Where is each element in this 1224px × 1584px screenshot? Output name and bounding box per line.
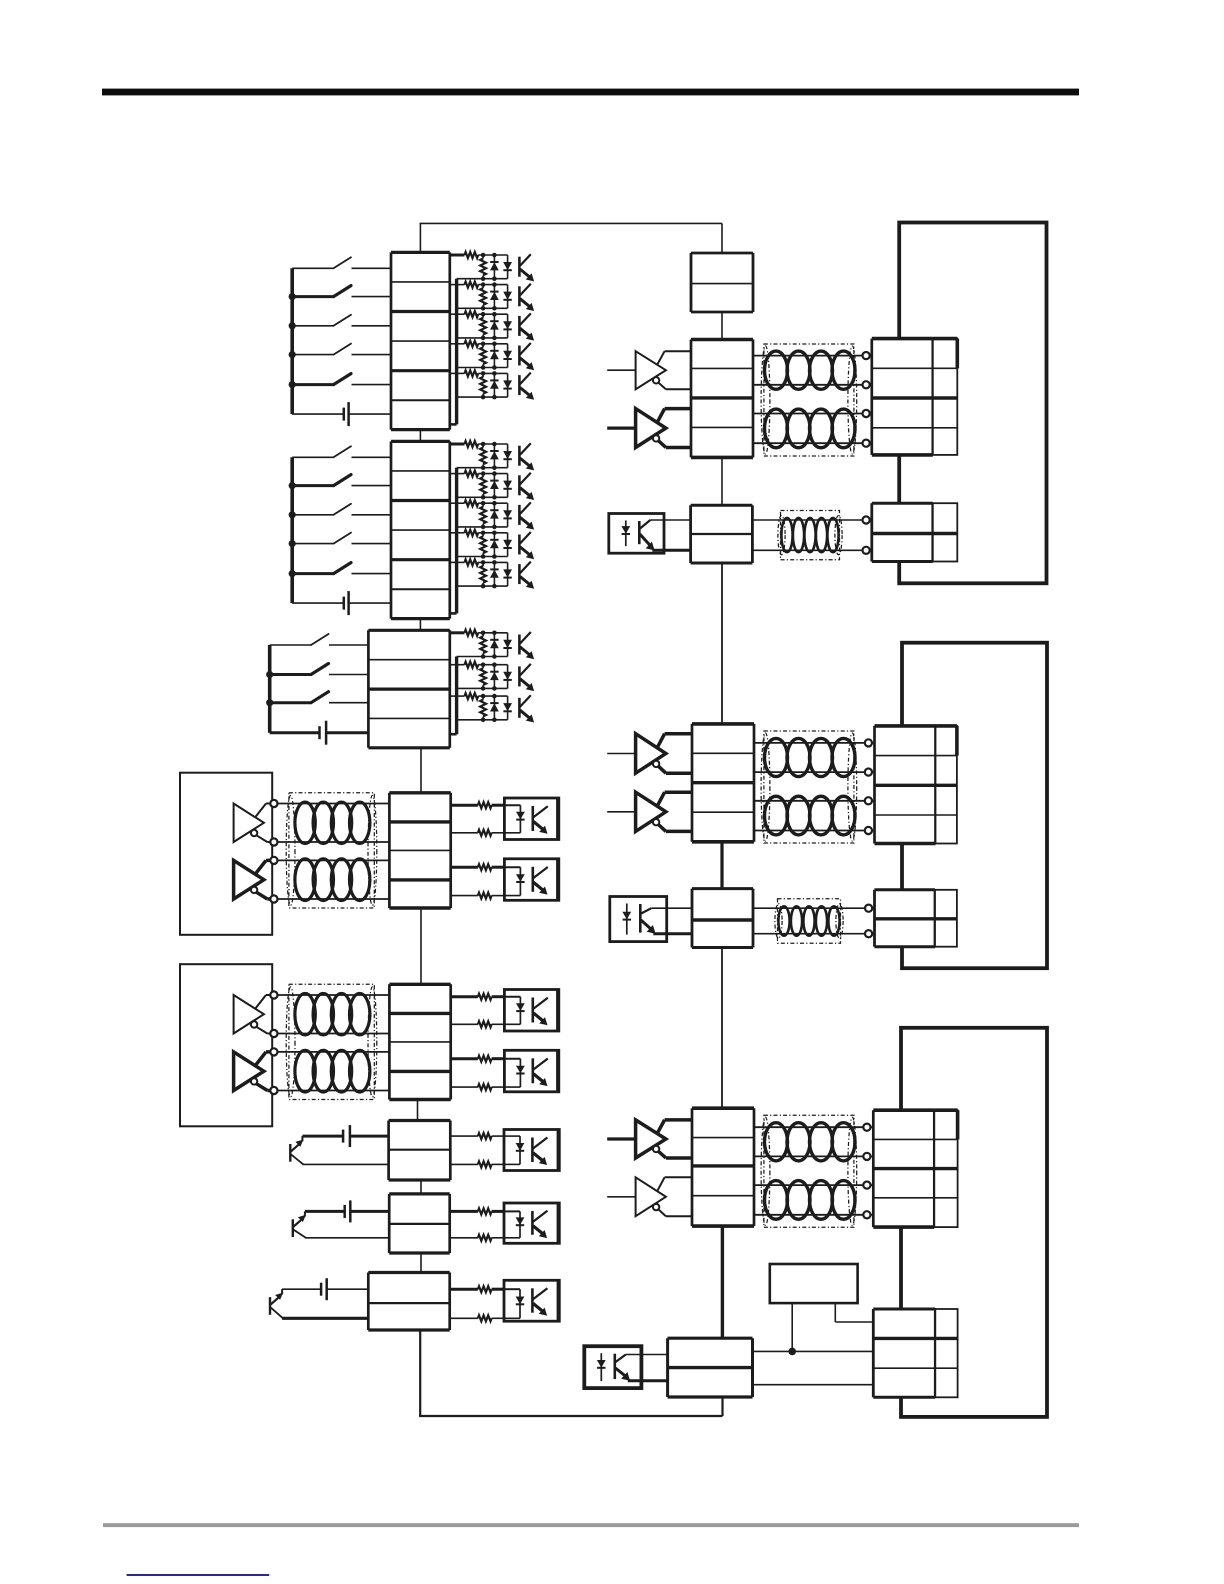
junction dot xyxy=(289,540,296,547)
wire left spine OUTA-OUTB xyxy=(420,1180,422,1194)
terminal block TB-R aux column xyxy=(934,1110,957,1227)
input limiter network R/LED 5 xyxy=(450,559,534,588)
terminal block TB-R aux column xyxy=(936,726,957,844)
wire left spine COM1-COM2 xyxy=(420,908,422,984)
terminal 3 xyxy=(270,857,277,864)
terminal block TB-L xyxy=(692,724,754,842)
junction dot xyxy=(788,1348,796,1356)
line driver U1 xyxy=(607,1120,692,1158)
junction dot xyxy=(266,671,273,678)
series resistor pair 2 xyxy=(451,864,505,898)
CPU frame F3 xyxy=(901,1028,1047,1417)
terminal block TB-TOP xyxy=(691,253,753,312)
switch SW3 xyxy=(292,504,391,515)
terminal 3 xyxy=(863,1182,870,1189)
output transistor Q xyxy=(270,1289,283,1318)
terminal 3 xyxy=(863,410,870,417)
input bus wire xyxy=(268,645,272,733)
junction dot xyxy=(289,293,296,300)
terminal block TB-L xyxy=(691,340,753,458)
wire bottom return xyxy=(419,1330,722,1416)
terminal block TB-BOT xyxy=(668,1338,753,1397)
isolated channel OCR1 xyxy=(609,503,958,563)
terminal 3 xyxy=(270,1048,277,1055)
shield xyxy=(761,344,857,456)
input bus wire xyxy=(290,268,294,414)
wire right spine RC3-bottom box xyxy=(721,1226,724,1338)
wire right spine OCR1-RC2 xyxy=(721,563,723,724)
page bottom rule xyxy=(103,1523,1079,1527)
terminal 1 xyxy=(863,1124,870,1131)
optocoupler OC2 xyxy=(504,859,558,901)
terminal block TB-COM xyxy=(389,984,450,1099)
twisted pair TP2 xyxy=(278,859,390,901)
CPU frame F2 xyxy=(902,643,1047,969)
terminal block TB-OUT xyxy=(389,1194,450,1253)
terminal 4 xyxy=(270,1087,277,1094)
junction dot xyxy=(289,351,296,358)
line driver module box xyxy=(180,773,272,935)
junction dot xyxy=(289,322,296,329)
optocoupler OC2 xyxy=(504,1050,558,1092)
line driver U-A xyxy=(234,804,271,843)
input limiter network R/LED 3-3 xyxy=(450,693,534,722)
terminal block TB-RB xyxy=(872,503,933,561)
series resistor pair 1 xyxy=(451,994,505,1028)
line driver U2 xyxy=(607,792,692,831)
input limiter network R/LED 3-1 xyxy=(450,630,534,659)
terminal block TB-IN xyxy=(391,252,450,429)
twisted pair TP2 xyxy=(278,1050,390,1092)
terminal 2 xyxy=(863,1153,870,1160)
input limiter network R/LED 5 xyxy=(450,370,534,399)
shield xyxy=(286,984,377,1099)
CPU frame F1 xyxy=(899,223,1046,584)
terminal block TB-M xyxy=(692,889,753,948)
terminal 4 xyxy=(270,895,277,902)
terminal 1 xyxy=(863,352,870,359)
optocoupler OC1 xyxy=(504,990,558,1032)
junction dot xyxy=(289,511,296,518)
terminal block TB-R xyxy=(872,339,933,455)
twisted pair TP2 xyxy=(753,409,872,448)
input limiter network R/LED 3 xyxy=(450,500,534,529)
battery xyxy=(292,591,391,615)
input bus wire xyxy=(290,457,294,603)
optocoupler OC1 xyxy=(504,798,558,840)
input group G1 xyxy=(289,252,534,430)
comm assembly RC2 xyxy=(607,724,957,844)
series resistor pair 2 xyxy=(451,1056,505,1090)
isolation coil xyxy=(752,518,871,552)
input limiter network R/LED 2 xyxy=(450,282,534,311)
wire top loop xyxy=(420,223,722,253)
terminal block TB-OUT xyxy=(389,1121,451,1181)
wire bus B xyxy=(753,1384,874,1386)
terminal 2 xyxy=(863,381,870,388)
switch SW3-2 xyxy=(270,664,369,675)
twisted pair TP1 xyxy=(753,351,872,389)
terminal block TB-OUT xyxy=(368,1273,449,1331)
terminal block TB-BR xyxy=(873,1309,935,1397)
wire left spine G3-COM1 xyxy=(420,748,422,793)
optocoupler OC-OUT xyxy=(504,1280,559,1321)
wire right spine OCR2-RC3 xyxy=(721,948,723,1109)
terminal 2 xyxy=(865,769,872,776)
terminal block TB-L xyxy=(692,1108,754,1226)
wire right spine RC1-OCR1 xyxy=(721,458,723,505)
terminal block TB-M xyxy=(691,505,753,563)
junction dot xyxy=(266,699,273,706)
terminal 2 xyxy=(863,547,870,554)
series resistor pair 1 xyxy=(451,802,505,836)
optocoupler OC-BOT xyxy=(584,1346,667,1388)
terminal 1 xyxy=(270,991,277,998)
input limiter network R/LED 4 xyxy=(450,530,534,559)
twisted pair TP1 xyxy=(278,802,390,844)
footer link underline xyxy=(127,1574,270,1576)
terminal block TB-RB aux column xyxy=(933,503,958,561)
terminal 1 xyxy=(865,905,872,912)
switch SW5 xyxy=(292,563,391,574)
comm assembly RC1 xyxy=(607,339,957,458)
terminal 2 xyxy=(865,930,872,937)
LED return bus xyxy=(450,657,457,735)
power supply box xyxy=(770,1264,858,1303)
input limiter network R/LED 2 xyxy=(450,471,534,500)
wire right spine RC2-OCR2 xyxy=(720,842,723,889)
switch SW4 xyxy=(292,533,391,544)
input limiter network R/LED 1 xyxy=(450,252,534,281)
battery xyxy=(305,1200,389,1222)
LED return bus xyxy=(450,468,457,614)
comm block COM2 xyxy=(180,964,559,1126)
terminal 1 xyxy=(863,516,870,523)
battery xyxy=(270,721,369,745)
series resistor pair xyxy=(450,1208,504,1240)
optocoupler OC-R xyxy=(609,514,691,554)
input limiter network R/LED 3-2 xyxy=(450,662,534,691)
input group G2 xyxy=(289,441,534,619)
line driver U-B xyxy=(234,860,271,899)
series resistor pair xyxy=(450,1133,504,1167)
output transistor Q xyxy=(293,1211,306,1237)
input group G3 xyxy=(266,630,534,748)
terminal block TB-RB aux column xyxy=(935,890,957,947)
input limiter network R/LED 1 xyxy=(450,441,534,470)
line driver module box xyxy=(180,964,272,1126)
twisted pair TP1 xyxy=(754,738,875,776)
switch SW3-3 xyxy=(270,692,369,703)
junction dot xyxy=(289,381,296,388)
shield xyxy=(775,899,843,944)
shield xyxy=(778,511,842,560)
output group OUT-A xyxy=(290,1121,559,1181)
wire left spine G1-G2 xyxy=(419,430,421,442)
terminal 2 xyxy=(270,838,277,845)
isolation coil xyxy=(753,906,875,936)
terminal block TB-RB xyxy=(875,890,936,947)
twisted pair TP2 xyxy=(754,1181,873,1220)
terminal 4 xyxy=(863,440,870,447)
junction dot xyxy=(289,482,296,489)
line driver U1 xyxy=(607,734,692,774)
input limiter network R/LED 3 xyxy=(450,311,534,340)
line driver U2 xyxy=(607,1177,692,1216)
terminal block TB-R xyxy=(875,726,936,844)
terminal block TB-COM xyxy=(389,793,450,908)
wire left spine G2-G3 xyxy=(419,619,421,631)
switch SW3 xyxy=(292,315,391,326)
switch SW3-1 xyxy=(270,634,369,645)
junction dot xyxy=(289,570,296,577)
terminal 4 xyxy=(865,827,872,834)
terminal block TB-R xyxy=(873,1110,934,1227)
LED return bus xyxy=(450,279,457,425)
shield xyxy=(761,731,857,843)
terminal 3 xyxy=(865,797,872,804)
comm block COM1 xyxy=(180,773,559,935)
optocoupler OC-OUT xyxy=(504,1203,559,1243)
output group OUT-B xyxy=(293,1194,560,1253)
terminal 1 xyxy=(270,800,277,807)
optocoupler OC-R xyxy=(610,897,692,942)
terminal 2 xyxy=(270,1030,277,1037)
twisted pair TP1 xyxy=(278,993,390,1034)
line driver U1 xyxy=(607,351,691,389)
line driver U-B xyxy=(234,1052,271,1091)
battery xyxy=(292,402,391,426)
line driver U2 xyxy=(607,409,691,448)
battery xyxy=(282,1278,368,1300)
shield xyxy=(286,793,377,908)
wire emitter return xyxy=(282,1317,368,1320)
terminal block TB-IN3 xyxy=(368,630,449,748)
wire PSU to bus xyxy=(791,1303,793,1351)
wire left spine COM2-OUTA xyxy=(417,1100,419,1121)
line driver U-A xyxy=(234,995,271,1034)
twisted pair TP2 xyxy=(754,796,875,835)
wire PSU to TB xyxy=(835,1303,873,1322)
terminal 1 xyxy=(865,739,872,746)
wire left spine OUTB-OUTC xyxy=(420,1253,422,1273)
input limiter network R/LED 4 xyxy=(450,341,534,370)
wire bus A xyxy=(753,1350,874,1352)
terminal 4 xyxy=(863,1211,870,1218)
twisted pair TP1 xyxy=(754,1123,873,1161)
switch SW1 xyxy=(292,257,391,268)
output group OUT-C xyxy=(270,1273,559,1331)
series resistor pair xyxy=(450,1286,504,1321)
wire emitter return xyxy=(305,1237,389,1239)
switch SW2 xyxy=(292,475,391,486)
shield xyxy=(761,1115,857,1227)
terminal block TB-R aux column xyxy=(933,339,958,455)
comm assembly RC3 xyxy=(607,1108,957,1227)
wire right spine smallbox-RC1 xyxy=(721,312,723,340)
switch SW4 xyxy=(292,344,391,355)
switch SW2 xyxy=(292,286,391,297)
optocoupler OC-OUT xyxy=(504,1130,559,1171)
terminal block TB-BR aux column xyxy=(935,1309,957,1397)
switch SW5 xyxy=(292,374,391,385)
page top rule xyxy=(102,89,1079,96)
switch SW1 xyxy=(292,446,391,457)
output transistor Q xyxy=(290,1136,303,1164)
terminal block TB-IN xyxy=(391,441,450,618)
isolated channel OCR2 xyxy=(610,889,957,948)
wire emitter return xyxy=(302,1163,388,1165)
battery xyxy=(302,1125,388,1147)
